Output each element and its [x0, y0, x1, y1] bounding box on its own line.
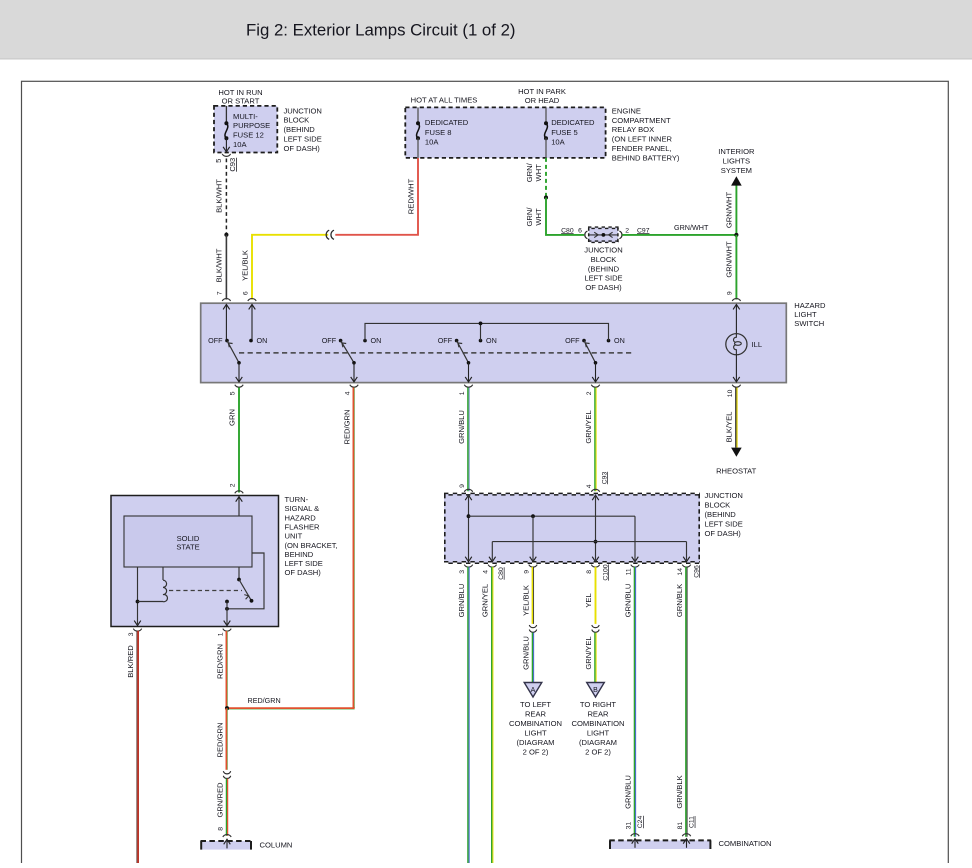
switch pin 2 exit — [586, 385, 600, 396]
connector C93 pin 5 under fuse 12 — [214, 154, 237, 172]
turn-signal and hazard flasher unit box — [111, 496, 279, 627]
svg-text:C96: C96 — [693, 565, 700, 578]
svg-text:C80: C80 — [498, 567, 505, 580]
flasher relay coil — [138, 567, 168, 602]
svg-text:LEFT SIDE: LEFT SIDE — [284, 135, 322, 144]
svg-text:1: 1 — [459, 391, 466, 395]
wire GRN/YEL from connector to triangle B — [584, 633, 596, 684]
wire GRN/BLU from connector to triangle A — [521, 633, 533, 684]
svg-text:4: 4 — [345, 391, 352, 395]
svg-text:RED/GRN: RED/GRN — [215, 722, 224, 757]
svg-text:C93: C93 — [601, 472, 608, 485]
svg-text:4: 4 — [483, 570, 490, 574]
wire GRN/YEL from switch pin 2 to junction block pin 4 C93 — [584, 388, 609, 492]
svg-text:RED/WHT: RED/WHT — [406, 178, 415, 214]
svg-text:C80: C80 — [561, 227, 574, 234]
svg-text:2: 2 — [229, 483, 236, 487]
svg-text:PURPOSE: PURPOSE — [233, 121, 270, 130]
svg-text:LIGHT: LIGHT — [524, 729, 547, 738]
splice node RED/GRN — [225, 706, 229, 710]
svg-text:COMBINATION: COMBINATION — [571, 719, 624, 728]
svg-text:2 OF 2): 2 OF 2) — [523, 748, 549, 757]
label TURN-SIGNAL &amp; HAZARD FLASHER UNIT (ON BRACKET, BEHIND LEFT SIDE OF DASH) — [285, 495, 338, 577]
svg-text:GRN/BLU: GRN/BLU — [457, 410, 466, 444]
svg-text:HAZARD: HAZARD — [794, 301, 826, 310]
svg-text:COMPARTMENT: COMPARTMENT — [612, 116, 671, 125]
svg-text:LEFT SIDE: LEFT SIDE — [285, 559, 323, 568]
svg-text:REAR: REAR — [587, 710, 609, 719]
svg-text:C97: C97 — [637, 227, 650, 234]
junction pin 3 exit — [459, 565, 473, 574]
wire GRN/BLU from junction pin 11 to combination pin 31 — [623, 567, 644, 837]
svg-text:5: 5 — [230, 391, 237, 395]
svg-text:10A: 10A — [425, 138, 439, 147]
junction pin 9 exit — [523, 565, 537, 574]
svg-text:SWITCH: SWITCH — [794, 319, 824, 328]
svg-text:31: 31 — [625, 822, 632, 830]
svg-text:OF DASH): OF DASH) — [285, 568, 322, 577]
svg-text:FUSE 8: FUSE 8 — [425, 128, 452, 137]
svg-text:RED/GRN: RED/GRN — [342, 409, 351, 444]
svg-text:REAR: REAR — [525, 710, 547, 719]
wire GRN/WHT up to interior lights system — [725, 185, 737, 235]
svg-text:BLK/RED: BLK/RED — [126, 645, 135, 678]
svg-text:YEL/BLK: YEL/BLK — [240, 250, 249, 281]
svg-text:10A: 10A — [233, 140, 247, 149]
wire YEL/BLK from junction pin 9 to connector — [521, 567, 533, 624]
flasher output contact to pin 1 — [224, 600, 231, 626]
wire GRN/YEL from junction pin 4 to bottom — [481, 567, 493, 863]
svg-text:(BEHIND: (BEHIND — [284, 125, 316, 134]
COLUMN box (partial) — [201, 839, 293, 849]
svg-text:2: 2 — [625, 227, 629, 234]
svg-text:6: 6 — [242, 291, 249, 295]
switch pole 1 OFF/ON contacts and lever — [208, 336, 267, 382]
switch pole 4 OFF/ON contacts and lever — [565, 336, 625, 382]
wire GRN/BLU from junction pin 3 to bottom — [457, 567, 469, 863]
svg-text:Fig 2: Exterior Lamps Circuit: Fig 2: Exterior Lamps Circuit (1 of 2) — [246, 21, 516, 40]
svg-text:ON: ON — [257, 336, 268, 345]
svg-text:C11: C11 — [689, 816, 696, 828]
svg-text:GRN/BLU: GRN/BLU — [457, 584, 466, 618]
flasher pin 3 exit — [128, 629, 142, 637]
svg-text:RHEOSTAT: RHEOSTAT — [716, 467, 757, 476]
svg-text:2: 2 — [586, 391, 593, 395]
svg-text:8: 8 — [217, 827, 224, 831]
label ENGINE COMPARTMENT RELAY BOX (ON LEFT INNER FENDER PANEL, BEHIND BATTERY) — [612, 106, 680, 162]
svg-text:OF DASH): OF DASH) — [585, 283, 622, 292]
wire YEL from junction pin 8 to connector — [584, 567, 596, 624]
COMBINATION box (partial) — [609, 839, 771, 849]
junction pin 9 entry (top) — [464, 489, 472, 500]
junction pin 14 exit — [677, 565, 691, 576]
inline connector YEL to GRN/YEL — [592, 625, 599, 632]
svg-text:INTERIOR: INTERIOR — [718, 147, 755, 156]
svg-text:LIGHT: LIGHT — [587, 729, 610, 738]
wire RED/GRN from switch pin 4 down and left to splice — [227, 388, 355, 710]
svg-text:ENGINE: ENGINE — [612, 106, 641, 115]
svg-text:(ON LEFT INNER: (ON LEFT INNER — [612, 135, 673, 144]
svg-text:COMBINATION: COMBINATION — [719, 839, 772, 848]
svg-text:GRN/BLK: GRN/BLK — [675, 775, 684, 808]
junction pin 11 exit — [625, 565, 639, 576]
svg-text:BLK/YEL: BLK/YEL — [725, 412, 734, 443]
svg-text:UNIT: UNIT — [285, 532, 303, 541]
svg-text:2 OF 2): 2 OF 2) — [585, 748, 611, 757]
svg-text:11: 11 — [625, 568, 632, 575]
splice node GRN/WHT right — [734, 233, 738, 237]
svg-text:GRN/: GRN/ — [525, 162, 534, 182]
svg-text:GRN: GRN — [227, 409, 236, 426]
svg-text:9: 9 — [459, 484, 466, 488]
svg-text:DEDICATED: DEDICATED — [425, 118, 469, 127]
illumination lamp ILL — [726, 334, 762, 382]
svg-text:B: B — [593, 687, 598, 694]
switch ON bus wire — [365, 322, 609, 341]
svg-text:HOT AT ALL TIMES: HOT AT ALL TIMES — [411, 96, 478, 105]
svg-text:(BEHIND: (BEHIND — [588, 264, 620, 273]
svg-text:FLASHER: FLASHER — [285, 523, 321, 532]
wire GRN/WHT dashed segment from fuse 5 — [525, 158, 546, 198]
switch pin 5 exit — [230, 385, 244, 396]
svg-text:SIGNAL &: SIGNAL & — [285, 504, 320, 513]
off-page triangle A TO LEFT REAR COMBINATION LIGHT — [509, 683, 562, 757]
junction pin 8 exit — [586, 565, 600, 574]
label HAZARD LIGHT SWITCH — [794, 301, 826, 328]
svg-text:81: 81 — [677, 822, 684, 830]
svg-text:(BEHIND: (BEHIND — [705, 510, 737, 519]
svg-text:JUNCTION: JUNCTION — [284, 106, 322, 115]
svg-text:GRN/YEL: GRN/YEL — [481, 584, 490, 617]
svg-text:JUNCTION: JUNCTION — [584, 246, 622, 255]
svg-text:(DIAGRAM: (DIAGRAM — [579, 738, 617, 747]
svg-text:ON: ON — [486, 336, 497, 345]
svg-text:GRN/BLU: GRN/BLU — [623, 775, 632, 809]
splice node on BLK/WHT wire — [224, 233, 228, 237]
svg-text:HAZARD: HAZARD — [285, 513, 317, 522]
svg-text:3: 3 — [128, 632, 135, 636]
flasher internal left lead and splice — [134, 567, 141, 626]
svg-text:TURN-: TURN- — [285, 495, 309, 504]
svg-text:10A: 10A — [551, 138, 565, 147]
svg-text:GRN/BLK: GRN/BLK — [675, 584, 684, 617]
arrow to RHEOSTAT — [716, 448, 757, 476]
junction block inline connector C80/C97 — [561, 227, 650, 242]
svg-text:LIGHTS: LIGHTS — [723, 156, 750, 165]
switch mechanical linkage (dashed) — [239, 352, 632, 354]
svg-text:GRN/WHT: GRN/WHT — [674, 223, 709, 232]
svg-text:OFF: OFF — [208, 336, 223, 345]
svg-text:GRN/RED: GRN/RED — [215, 782, 224, 818]
label JUNCTION BLOCK (BEHIND LEFT SIDE OF DASH) - mid — [584, 246, 622, 293]
svg-text:(DIAGRAM: (DIAGRAM — [517, 738, 555, 747]
svg-text:OFF: OFF — [322, 336, 337, 345]
flasher mechanical linkage (dashed) — [169, 590, 242, 592]
engine compartment relay box (dashed) — [405, 107, 605, 157]
off-page triangle B TO RIGHT REAR COMBINATION LIGHT — [571, 683, 624, 757]
svg-text:WHT: WHT — [534, 164, 543, 182]
svg-text:OF DASH): OF DASH) — [284, 144, 321, 153]
svg-text:YEL/BLK: YEL/BLK — [521, 585, 530, 616]
svg-text:9: 9 — [727, 291, 734, 295]
switch pin 9 entry — [732, 299, 740, 334]
junction internal bus wires — [465, 495, 690, 562]
svg-text:5: 5 — [214, 159, 223, 163]
svg-text:C100: C100 — [602, 564, 609, 580]
svg-text:7: 7 — [217, 291, 224, 295]
combination pin 31 entry — [631, 834, 639, 836]
svg-text:SYSTEM: SYSTEM — [721, 166, 752, 175]
svg-text:BLK/WHT: BLK/WHT — [215, 179, 224, 213]
inline connector YEL/BLK to GRN/BLU — [529, 625, 536, 632]
svg-text:FUSE 5: FUSE 5 — [551, 128, 578, 137]
wire GRN/WHT down to hazard switch pin 9 — [725, 235, 737, 300]
label JUNCTION BLOCK (BEHIND LEFT SIDE OF DASH) - top left — [284, 106, 322, 153]
junction block fuse box (dashed) — [214, 106, 277, 153]
svg-text:RED/GRN: RED/GRN — [248, 696, 281, 705]
switch pole 2 OFF/ON contacts and lever — [322, 336, 382, 382]
svg-text:BEHIND BATTERY): BEHIND BATTERY) — [612, 153, 680, 162]
svg-text:BEHIND: BEHIND — [285, 550, 314, 559]
inline connector RED/GRN to GRN/RED — [223, 771, 230, 778]
svg-text:3: 3 — [459, 570, 466, 574]
svg-text:ON: ON — [371, 336, 382, 345]
svg-text:RED/GRN: RED/GRN — [215, 644, 224, 679]
svg-text:YEL: YEL — [584, 593, 593, 607]
fuse F5 DEDICATED FUSE 5 10A — [544, 107, 595, 157]
svg-text:LIGHT: LIGHT — [794, 310, 817, 319]
svg-text:GRN/WHT: GRN/WHT — [725, 241, 734, 278]
svg-text:COMBINATION: COMBINATION — [509, 719, 562, 728]
switch pin 7 entry — [222, 299, 230, 341]
wire RED/WHT from dedicated fuse 8 to inline connector — [335, 158, 418, 235]
wire RED/GRN splice down to inline connector — [215, 708, 227, 770]
svg-text:1: 1 — [217, 632, 224, 636]
svg-text:ILL: ILL — [752, 340, 763, 349]
junction block box (dashed) lower — [444, 494, 700, 563]
svg-text:STATE: STATE — [176, 543, 199, 552]
svg-text:C24: C24 — [637, 816, 644, 829]
svg-text:BLOCK: BLOCK — [284, 116, 310, 125]
wire BLK/WHT dashed segment from C93 to splice — [215, 159, 227, 235]
svg-text:FENDER PANEL,: FENDER PANEL, — [612, 144, 672, 153]
svg-text:OF DASH): OF DASH) — [705, 529, 742, 538]
flasher internal feedback loop wire — [227, 553, 264, 609]
svg-text:4: 4 — [586, 484, 593, 488]
svg-text:C93: C93 — [228, 158, 237, 172]
svg-text:GRN/YEL: GRN/YEL — [584, 410, 593, 443]
svg-text:COLUMN: COLUMN — [260, 841, 293, 850]
svg-text:14: 14 — [677, 568, 684, 576]
svg-text:DEDICATED: DEDICATED — [551, 118, 595, 127]
wire BLK/WHT solid segment to hazard switch pin 7 — [215, 235, 227, 300]
power label HOT IN RUN OR START — [218, 88, 262, 106]
wire GRN/BLK from junction pin 14 to combination pin 81 — [675, 567, 696, 837]
svg-text:FUSE 12: FUSE 12 — [233, 131, 264, 140]
wire GRN from switch pin 5 to flasher pin 2 — [227, 388, 239, 493]
label JUNCTION BLOCK (BEHIND LEFT SIDE OF DASH) - lower — [705, 491, 743, 538]
svg-text:JUNCTION: JUNCTION — [705, 491, 743, 500]
wire BLK/RED from flasher pin 3 to bottom — [126, 631, 138, 863]
svg-text:ON: ON — [614, 336, 625, 345]
svg-text:TO RIGHT: TO RIGHT — [580, 700, 617, 709]
svg-text:BLK/WHT: BLK/WHT — [215, 248, 224, 282]
fuse F8 DEDICATED FUSE 8 10A — [416, 107, 469, 157]
svg-text:GRN/WHT: GRN/WHT — [725, 192, 734, 229]
svg-text:OR START: OR START — [222, 97, 260, 106]
wire GRN/RED from connector to column pin 8 — [215, 779, 227, 836]
svg-text:OR HEAD: OR HEAD — [525, 96, 560, 105]
wire GRN/WHT horizontal from C97 to splice — [622, 223, 736, 235]
svg-text:LEFT SIDE: LEFT SIDE — [584, 274, 622, 283]
wire BLK/YEL from switch pin 10 to rheostat — [725, 388, 737, 448]
fuse F12 MULTI-PURPOSE FUSE 12 10A — [223, 106, 270, 152]
switch pin 1 exit — [459, 385, 473, 396]
svg-text:10: 10 — [727, 389, 734, 397]
svg-text:9: 9 — [523, 570, 530, 574]
flasher relay switch lever — [237, 567, 253, 603]
switch pole 3 OFF/ON contacts and lever — [438, 336, 497, 382]
svg-text:BLOCK: BLOCK — [591, 255, 617, 264]
svg-text:RELAY BOX: RELAY BOX — [612, 125, 654, 134]
svg-text:GRN/BLU: GRN/BLU — [521, 636, 530, 670]
page title bar — [0, 0, 972, 60]
svg-text:8: 8 — [586, 570, 593, 574]
svg-text:A: A — [531, 687, 536, 694]
svg-text:GRN/BLU: GRN/BLU — [623, 584, 632, 618]
wire GRN/BLU from switch pin 1 to junction block pin 9 — [457, 388, 469, 492]
wire GRN/WHT solid segment to junction block C80 — [525, 198, 584, 235]
flasher SOLID STATE module — [124, 516, 252, 567]
svg-text:GRN/: GRN/ — [525, 207, 534, 227]
arrow to INTERIOR LIGHTS SYSTEM — [718, 147, 755, 186]
switch pin 10 exit — [727, 385, 741, 397]
junction pin 4 exit — [483, 565, 497, 574]
svg-text:BLOCK: BLOCK — [705, 501, 731, 510]
svg-text:MULTI-: MULTI- — [233, 112, 258, 121]
column connector entry — [223, 835, 231, 837]
svg-text:WHT: WHT — [534, 208, 543, 226]
splice node on GRN/WHT wire — [544, 195, 548, 199]
wire YEL/BLK from inline connector to hazard switch pin 6 — [240, 235, 328, 300]
flasher pin 2 entry — [235, 491, 243, 516]
flasher pin 1 exit — [217, 629, 231, 637]
svg-text:GRN/YEL: GRN/YEL — [584, 636, 593, 669]
svg-text:6: 6 — [578, 227, 582, 234]
power label HOT IN PARK OR HEAD — [518, 87, 566, 105]
svg-text:TO LEFT: TO LEFT — [520, 700, 551, 709]
svg-text:OFF: OFF — [565, 336, 580, 345]
switch pin 4 exit — [345, 385, 359, 396]
svg-text:LEFT SIDE: LEFT SIDE — [705, 519, 743, 528]
hazard light switch box — [201, 303, 787, 382]
switch pin 6 entry — [248, 299, 256, 341]
svg-text:OFF: OFF — [438, 336, 453, 345]
combination pin 81 entry — [682, 834, 690, 836]
svg-text:(ON BRACKET,: (ON BRACKET, — [285, 541, 338, 550]
wire RED/GRN from flasher pin 1 to splice — [215, 631, 227, 708]
junction pin 4 entry (top) — [591, 489, 599, 500]
inline connector between YEL/BLK and RED/WHT — [326, 230, 334, 239]
